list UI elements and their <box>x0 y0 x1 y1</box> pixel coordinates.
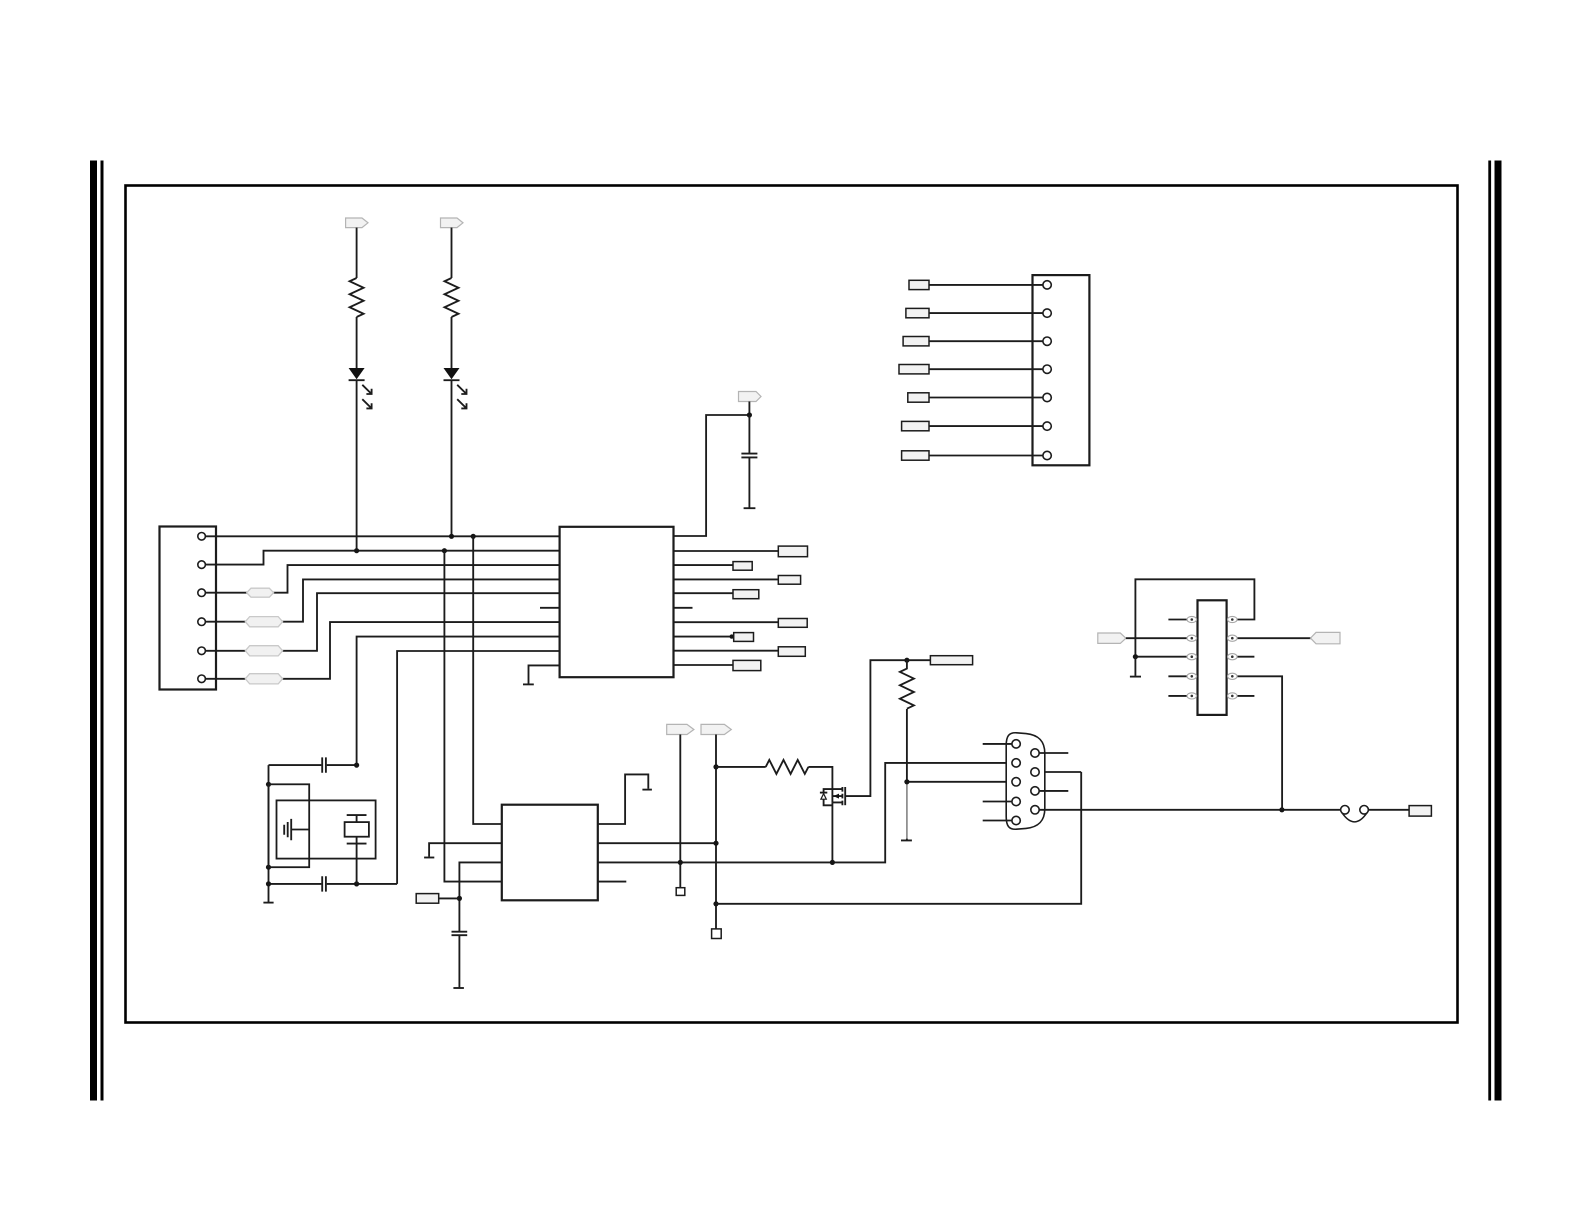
wire net6 J1.6 to U1.7 <box>205 622 559 679</box>
wire U1.9 to crystal net XTAL2 <box>397 651 559 884</box>
junction U2.3 label node <box>457 896 462 901</box>
junction U1.8 label <box>730 634 734 638</box>
wire U1.5 to label <box>674 592 734 594</box>
junction U3.3 gnd <box>1133 654 1138 659</box>
net label J2.1 <box>909 280 929 289</box>
ground U3 <box>1130 676 1141 678</box>
junction R3 DB9.3 <box>904 779 909 784</box>
wire R3 gray ground lead <box>906 782 908 839</box>
wire U2.1 riser to net1 <box>473 536 502 824</box>
wire U1.8 to crystal Y1 <box>357 637 560 766</box>
wire F2 to R2 <box>451 228 453 278</box>
wire J2.1 <box>929 284 1043 286</box>
net label U1.5 <box>733 590 759 599</box>
net label J2.7 <box>902 451 929 460</box>
pin 4 circle <box>198 618 206 626</box>
pin 6 circle <box>198 675 206 683</box>
net label J2.3 <box>903 337 929 346</box>
wire C4 to ground <box>458 936 460 988</box>
wire gnd stem U3 <box>1134 657 1136 676</box>
U3.10 stub right <box>1237 695 1255 697</box>
wire U3.2 left <box>1126 637 1187 639</box>
net label U1.9 <box>778 647 805 657</box>
wire U3.7 right to flag <box>1237 637 1311 639</box>
U3.1 stub left <box>1168 619 1187 621</box>
junction B lower <box>713 901 718 906</box>
J3 pin5 stub <box>983 820 1012 822</box>
wire J2.6 <box>929 425 1043 427</box>
wire node B to DB9 right 2 <box>716 772 1081 904</box>
connector J3 DB9 <box>1006 733 1045 829</box>
net label J2.4 <box>899 365 929 374</box>
wire flag B down <box>715 735 717 929</box>
wire J2.5 <box>929 397 1043 399</box>
junction net2 riser <box>442 548 447 553</box>
net label U1.2 <box>778 546 807 557</box>
resistor R3 <box>900 660 914 709</box>
wire U2.2 to ground <box>429 843 502 856</box>
wire XTAL1 cap top <box>269 764 357 766</box>
junction B gate <box>713 764 718 769</box>
wire net2 J1.2 to U1.2 <box>205 551 559 565</box>
resistor R4 <box>766 760 809 774</box>
junction VCC node <box>747 412 752 417</box>
net label JP1 <box>1409 806 1431 817</box>
ground U2.2 <box>424 857 434 859</box>
wire U2.4 riser to net2 <box>444 551 501 882</box>
J3 left pin circles <box>1012 740 1020 825</box>
pin 2 circle <box>198 561 206 569</box>
capacitor C1 <box>741 415 757 508</box>
wire J2.4 <box>929 368 1043 370</box>
U3.5 stub left <box>1168 695 1187 697</box>
testpoint TP1 <box>676 888 685 896</box>
wire U1.9 to label <box>674 650 779 652</box>
wire J2.3 <box>929 340 1043 342</box>
net flag U3 right <box>1311 632 1341 643</box>
ground U1.10 <box>523 683 534 685</box>
wire D2 to net1 <box>451 380 453 537</box>
junction XTAL2 <box>354 881 359 886</box>
junction source <box>830 860 835 865</box>
ground C1 <box>744 507 756 509</box>
wire XTAL2 cap bottom <box>269 883 398 885</box>
net label J2.2 <box>906 308 929 317</box>
wire flag A down <box>679 735 681 888</box>
capacitor C3 <box>322 876 326 891</box>
testpoint TP2 <box>712 929 722 939</box>
wire VCC flag stem <box>748 402 750 416</box>
wire F1 to R1 <box>356 228 358 278</box>
junction jumper net <box>1279 807 1284 812</box>
J3 right pin circles <box>1031 749 1039 814</box>
J2 pin circles <box>1043 281 1051 460</box>
ground U2.5 <box>642 789 652 791</box>
net label hexagon net6 <box>245 674 282 684</box>
U3 top loop wire <box>1135 579 1254 656</box>
connector J2 <box>1033 275 1090 465</box>
crystal Y1 <box>345 815 369 844</box>
ground C4 <box>453 987 464 989</box>
wire Y1 bottom to XTAL2 <box>356 844 358 884</box>
junction shield top <box>266 782 271 787</box>
wire J3 pin9 to jumper JP1 <box>1039 809 1341 811</box>
net flag B <box>701 724 731 734</box>
wire net5 J1.5 to U1.5 <box>205 593 559 651</box>
junction LED1-net2 <box>354 548 359 553</box>
net label U1.4 <box>778 576 800 585</box>
power flag VCC <box>739 392 762 402</box>
capacitor C2 <box>322 757 326 772</box>
wire U3.9 to jumper net <box>1237 676 1282 810</box>
net label hexagon net4 <box>245 617 282 627</box>
U2 pin 8 stub <box>598 881 627 883</box>
crystal case box <box>277 800 376 858</box>
ground crystal rail <box>263 902 273 904</box>
J3 right pin3 stub <box>1039 790 1068 792</box>
wire label to node <box>439 897 460 899</box>
junction drain R3 <box>904 658 909 663</box>
net label J2.5 <box>908 393 929 402</box>
wire R3 to DB9.3 <box>907 709 1012 782</box>
wire net3 J1.3 to U1.3 <box>205 565 559 593</box>
wire U1.3 to label <box>674 564 734 566</box>
wire U2.7 to DB9.2 <box>598 763 1012 863</box>
LED D2 <box>444 368 467 408</box>
junction LED2-net1 <box>449 534 454 539</box>
IC U2 <box>502 805 598 901</box>
junction shield bottom <box>266 865 271 870</box>
net label J2.6 <box>902 421 929 430</box>
net label U1.10 <box>733 660 761 670</box>
IC U3 <box>1198 600 1227 715</box>
resistor R2 <box>445 278 459 317</box>
J3 pin1 stub <box>983 743 1012 745</box>
net label hexagon net5 <box>245 646 282 656</box>
wire gate net <box>716 766 766 768</box>
wire U1.4 to label <box>674 578 779 580</box>
connector J1 <box>160 527 217 690</box>
wire Q1 source <box>831 802 833 862</box>
J3 pin4 stub <box>983 801 1012 803</box>
wire U1.10 to label <box>674 664 734 666</box>
junction gnd cap <box>266 881 271 886</box>
net label hexagon net3 <box>247 588 274 597</box>
wire R1 to D1 <box>356 317 358 368</box>
net flag F2 <box>441 218 464 228</box>
transistor Q1 <box>820 787 845 805</box>
U3 pin bubbles right <box>1228 616 1238 699</box>
wire U3.3 left <box>1135 656 1187 658</box>
jumper JP1 <box>1341 806 1369 822</box>
wire U2.6 to node B <box>598 842 716 844</box>
net label U1.8 <box>734 633 754 642</box>
wire U2.3 node <box>459 862 501 931</box>
net label U1.3 <box>733 562 752 571</box>
J3 right pin1 stub <box>1039 752 1068 754</box>
U3.8 stub right <box>1237 656 1255 658</box>
wire D1 to net2 <box>356 380 358 551</box>
LED D1 <box>349 368 372 408</box>
wire net1 J1.1 to U1.1 <box>205 535 559 537</box>
wire U2.5 to ground <box>598 774 649 824</box>
net flag A <box>667 724 694 734</box>
net label U1.7 <box>778 619 807 628</box>
wire VCC net U1.1 <box>674 415 750 536</box>
net label R3 top <box>930 656 972 665</box>
pin 3 circle <box>198 589 206 597</box>
wire R2 to D2 <box>451 317 453 368</box>
resistor R1 <box>350 278 364 317</box>
wire JP1 to label <box>1368 809 1409 811</box>
net flag U3 left <box>1098 633 1126 643</box>
U3.4 stub left <box>1168 675 1187 677</box>
wire crystal ground rail <box>268 765 270 902</box>
junction B U2.6 <box>713 841 718 846</box>
U1 pin 6 stub left <box>540 607 560 609</box>
U1 pin 6 stub right <box>674 607 693 609</box>
U3 pin bubbles left <box>1187 616 1197 699</box>
junction XTAL1 <box>354 763 359 768</box>
wire J2.2 <box>929 312 1043 314</box>
junction net1 riser <box>471 534 476 539</box>
net flag F1 <box>346 218 368 228</box>
earth symbol in case <box>284 819 309 840</box>
pin 5 circle <box>198 647 206 655</box>
wire U1.7 to label <box>674 621 779 623</box>
ground R3 <box>901 839 912 841</box>
wire U1.10 to ground <box>529 665 560 684</box>
junction A <box>678 860 683 865</box>
crystal shield outline <box>269 784 310 867</box>
IC U1 <box>560 527 674 677</box>
wire J2.7 <box>929 455 1043 457</box>
capacitor C4 <box>452 932 468 936</box>
wire U1.8 to label <box>674 636 734 638</box>
wire U1.2 to label <box>674 550 779 552</box>
wire R4 to Q1 gate <box>808 767 832 789</box>
pin 1 circle <box>198 533 206 541</box>
net label U2.3 <box>416 894 439 904</box>
wire net4 J1.4 to U1.4 <box>205 579 559 621</box>
wire Q1 drain <box>845 660 930 796</box>
